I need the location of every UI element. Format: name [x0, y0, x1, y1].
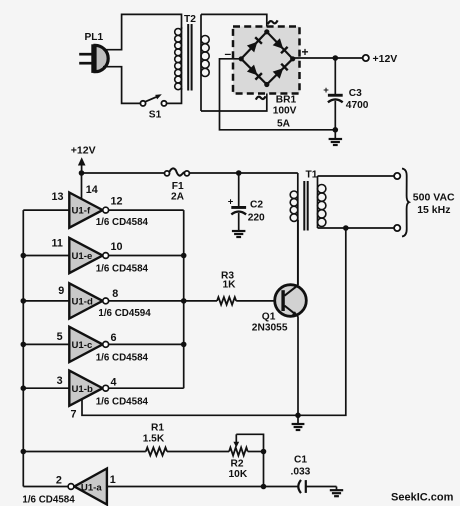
svg-text:+: + — [228, 196, 234, 207]
inverter U1-f — [69, 193, 102, 228]
svg-text:12: 12 — [111, 195, 123, 207]
wire plug top to T2 — [103, 14, 182, 49]
switch S1 — [140, 94, 166, 106]
wire T2 secondary bottom to bridge — [201, 85, 267, 112]
node R2 wiper — [261, 449, 267, 455]
capacitor C3 — [334, 58, 336, 94]
svg-text:8: 8 — [112, 288, 118, 300]
node rail left — [79, 170, 85, 176]
node C1 row — [261, 484, 267, 490]
svg-text:.033: .033 — [291, 467, 311, 478]
resistor R3 — [217, 297, 236, 305]
svg-text:1/6 CD4584: 1/6 CD4584 — [96, 263, 149, 274]
wire U1-d output to base — [184, 300, 217, 302]
svg-text:220: 220 — [248, 213, 265, 224]
inverter U1-a — [68, 469, 107, 505]
ground under C2 — [232, 230, 246, 232]
wire U1-a output to bus — [23, 486, 68, 488]
diode D1 (left-top) — [247, 42, 258, 53]
potentiometer R2 — [229, 448, 248, 456]
svg-text:2: 2 — [56, 475, 62, 487]
wire secondary branch down — [298, 228, 346, 415]
transformer T1 — [290, 173, 326, 285]
bridge vertex nodes — [264, 29, 269, 34]
transformer T2 — [175, 14, 209, 111]
bridge AC marks — [268, 20, 278, 24]
node output bus U1-e — [181, 253, 187, 259]
diode D2 (top-right) — [273, 38, 284, 49]
svg-text:1/6 CD4584: 1/6 CD4584 — [22, 494, 75, 505]
svg-text:S1: S1 — [149, 110, 162, 121]
svg-text:100V: 100V — [273, 106, 297, 117]
node C3 top — [333, 55, 339, 61]
svg-text:1/6 CD4584: 1/6 CD4584 — [96, 352, 149, 363]
svg-text:3: 3 — [57, 375, 63, 387]
node input bus U1-c — [21, 342, 27, 348]
wire input U1-b — [23, 387, 69, 389]
wire input U1-e — [23, 255, 69, 257]
output brace — [402, 169, 409, 237]
svg-text:C3: C3 — [349, 88, 362, 99]
diode D4 (bottom-right) — [273, 68, 284, 79]
svg-text:13: 13 — [52, 191, 64, 203]
wire plug bottom to S1 — [103, 67, 140, 104]
svg-text:+: + — [302, 45, 309, 59]
svg-text:Q1: Q1 — [262, 312, 276, 323]
wire output U1-f — [109, 209, 184, 211]
wire U1-a input row — [107, 486, 299, 488]
node emitter ground — [295, 413, 301, 419]
bridge rectifier BR1 box — [233, 27, 300, 94]
wire output U1-b — [109, 387, 184, 389]
wire output U1-c — [109, 343, 184, 345]
svg-text:T2: T2 — [184, 14, 196, 25]
svg-text:9: 9 — [58, 285, 64, 297]
svg-text:7: 7 — [71, 409, 77, 421]
svg-text:14: 14 — [86, 184, 98, 196]
svg-text:T1: T1 — [306, 170, 318, 181]
plug PL1 — [79, 44, 108, 73]
svg-text:R1: R1 — [151, 422, 164, 433]
node output bus U1-c — [181, 342, 187, 348]
svg-text:6: 6 — [111, 332, 117, 344]
ground under Q1 — [297, 415, 299, 424]
svg-text:+12V: +12V — [71, 145, 96, 157]
wire input U1-c — [23, 343, 69, 345]
svg-text:2A: 2A — [171, 192, 185, 203]
svg-text:U1-e: U1-e — [72, 251, 93, 262]
inverter U1-e — [69, 238, 102, 273]
wire input U1-d — [23, 300, 69, 302]
svg-text:U1-d: U1-d — [72, 297, 93, 308]
svg-text:1K: 1K — [223, 280, 237, 291]
wire S1 to T2 primary bottom — [167, 88, 182, 103]
node input bus U1-e — [21, 253, 27, 259]
svg-text:SeekIC.com: SeekIC.com — [391, 492, 454, 504]
resistor R1 — [146, 448, 167, 456]
wire R1 row — [23, 451, 146, 453]
svg-text:R2: R2 — [231, 459, 244, 470]
svg-text:1: 1 — [110, 474, 116, 486]
svg-text:5: 5 — [57, 331, 63, 343]
wire right output bus — [183, 210, 185, 388]
bridge diamond wires — [241, 32, 293, 85]
transistor Q1 — [275, 285, 307, 317]
svg-text:U1-a: U1-a — [81, 482, 102, 493]
capacitor C1 — [298, 480, 301, 493]
svg-text:1.5K: 1.5K — [143, 434, 165, 445]
svg-text:2N3055: 2N3055 — [252, 323, 288, 334]
wire bridge plus to +12V — [293, 57, 363, 59]
wire bridge minus to ground rail — [220, 59, 336, 130]
svg-text:4700: 4700 — [346, 100, 369, 111]
wire pin14 power — [81, 173, 83, 200]
node C2 top — [236, 170, 242, 176]
node secondary bottom branch — [343, 225, 349, 231]
node C3 bottom — [333, 127, 339, 133]
wire T1 secondary bottom terminal — [318, 227, 395, 229]
svg-text:15 kHz: 15 kHz — [417, 204, 450, 216]
svg-text:U1-b: U1-b — [72, 384, 93, 395]
ground under C3 — [334, 130, 336, 139]
svg-text:F1: F1 — [172, 181, 184, 192]
wire +12V rail — [82, 172, 165, 174]
svg-text:+12V: +12V — [373, 53, 398, 65]
svg-text:1/6 CD4584: 1/6 CD4584 — [96, 217, 149, 228]
svg-text:10K: 10K — [229, 469, 248, 480]
svg-text:U1-f: U1-f — [72, 206, 91, 217]
wire left input bus — [22, 210, 24, 486]
svg-text:+: + — [323, 85, 329, 96]
svg-text:1/6 CD4594: 1/6 CD4594 — [98, 308, 151, 319]
wire pin7 ground — [82, 399, 298, 415]
fuse F1 — [165, 168, 190, 175]
node input bus U1-b — [21, 385, 27, 391]
capacitor C2 — [238, 173, 240, 206]
diode D3 (left-bottom) — [247, 65, 258, 76]
svg-text:BR1: BR1 — [276, 95, 297, 106]
svg-text:C1: C1 — [294, 455, 307, 466]
svg-text:C2: C2 — [250, 199, 263, 210]
+12V terminal — [363, 55, 369, 61]
svg-text:11: 11 — [52, 237, 63, 249]
svg-text:4: 4 — [111, 377, 117, 389]
wire output U1-e — [109, 255, 184, 257]
node input bus U1-d — [21, 298, 27, 304]
node R1 bus — [21, 449, 27, 455]
wire input U1-f — [23, 209, 69, 211]
wire T1 secondary top terminal — [318, 175, 395, 177]
svg-text:1/6 CD4584: 1/6 CD4584 — [96, 396, 149, 407]
svg-text:U1-c: U1-c — [72, 340, 93, 351]
wire T2 secondary top to bridge — [201, 14, 267, 31]
svg-text:500 VAC: 500 VAC — [413, 192, 455, 204]
ground after C1 — [336, 487, 338, 491]
inverter U1-d — [69, 283, 102, 318]
wire collector to T1 — [297, 220, 299, 285]
svg-text:10: 10 — [111, 241, 123, 253]
inverter U1-b — [69, 371, 102, 406]
wire emitter to ground — [297, 316, 299, 415]
wire output U1-d — [109, 300, 184, 302]
svg-text:5A: 5A — [277, 118, 291, 129]
wire R2 to C1 row — [263, 452, 265, 487]
node output bus U1-d — [181, 298, 187, 304]
inverter U1-c — [69, 327, 102, 362]
svg-text:PL1: PL1 — [85, 32, 104, 43]
